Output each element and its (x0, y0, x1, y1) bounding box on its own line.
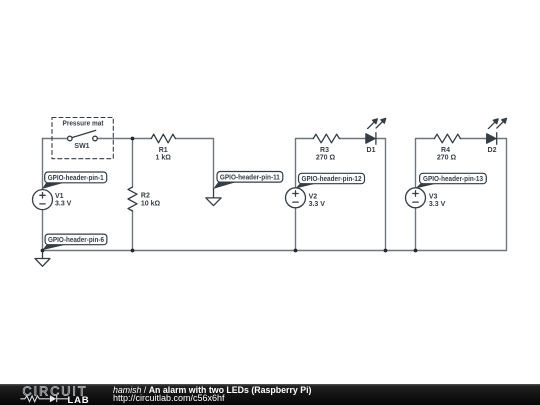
junction dots (41, 137, 418, 253)
LED D2 (487, 118, 507, 144)
wire left rail top (43, 138, 67, 140)
svg-text:R2: R2 (141, 193, 150, 200)
node GPIO-header-pin-11 (213, 172, 282, 189)
wire R2 bottom (132, 211, 134, 251)
wire V2 bottom (295, 208, 297, 251)
footer title (113, 385, 311, 395)
SW1 enclosure box (Pressure mat) (52, 118, 113, 159)
wire D1 to corner down (376, 139, 385, 251)
junction V2 bottom (294, 249, 298, 253)
svg-text:GPIO-header-pin-6: GPIO-header-pin-6 (48, 237, 104, 244)
resistor R2 (128, 187, 137, 211)
junction V3 bottom (414, 249, 418, 253)
junction D1 bottom (384, 249, 388, 253)
wire V2 top branch (296, 139, 314, 188)
svg-text:LAB: LAB (68, 395, 90, 405)
junction R1/R2 top (131, 137, 135, 141)
resistor R1 (151, 134, 175, 143)
CircuitLab logo (0, 384, 110, 405)
switch SW1 (68, 130, 98, 140)
junction R2 bottom (131, 249, 135, 253)
resistor R4 (434, 134, 460, 143)
svg-text:3.3 V: 3.3 V (55, 201, 72, 208)
node GPIO-header-pin-12 (295, 173, 364, 188)
wire R3 to D1 (339, 138, 366, 140)
voltage source V2 (286, 188, 306, 208)
wire D2 to corner down (497, 139, 506, 251)
voltage source V3 (406, 188, 426, 208)
svg-text:R1: R1 (159, 147, 168, 154)
footer bar (0, 384, 540, 405)
svg-text:GPIO-header-pin-11: GPIO-header-pin-11 (220, 175, 280, 182)
ground (bottom left) (35, 251, 50, 267)
junction ground left (41, 249, 45, 253)
svg-text:270 Ω: 270 Ω (316, 155, 336, 162)
svg-text:D1: D1 (367, 147, 376, 154)
resistor R3 (313, 134, 339, 143)
wire V3 bottom (415, 208, 417, 251)
svg-text:GPIO-header-pin-1: GPIO-header-pin-1 (48, 175, 104, 182)
node GPIO-header-pin-1 (42, 172, 107, 189)
svg-text:V3: V3 (429, 193, 438, 200)
footer url (113, 393, 225, 403)
svg-text:270 Ω: 270 Ω (437, 155, 457, 162)
wire R2 top (132, 139, 134, 188)
wire (43, 139, 507, 251)
svg-text:GPIO-header-pin-13: GPIO-header-pin-13 (423, 176, 483, 183)
svg-text:R3: R3 (320, 147, 329, 154)
wire R1 right to corner down (175, 139, 213, 189)
svg-text:SW1: SW1 (74, 143, 89, 150)
svg-text:10 kΩ: 10 kΩ (141, 200, 161, 207)
svg-text:3.3 V: 3.3 V (429, 201, 446, 208)
svg-text:V1: V1 (55, 193, 64, 200)
voltage source V1 (33, 190, 53, 210)
svg-text:V2: V2 (309, 193, 318, 200)
wire bottom rail (43, 250, 507, 252)
wire left rail V1 lower (42, 210, 44, 251)
node GPIO-header-pin-13 (415, 173, 486, 188)
node GPIO-header-pin-6 (42, 234, 107, 250)
wire V3 top branch (416, 139, 435, 188)
svg-text:3.3 V: 3.3 V (309, 201, 326, 208)
svg-text:Pressure mat: Pressure mat (63, 120, 105, 127)
svg-text:GPIO-header-pin-12: GPIO-header-pin-12 (302, 176, 362, 183)
svg-text:R4: R4 (441, 147, 450, 154)
wire switch to R1 junction (98, 138, 151, 140)
wire left rail V1 upper (42, 139, 44, 190)
svg-text:D2: D2 (488, 147, 497, 154)
wire R4 to D2 (460, 138, 486, 140)
LED D1 (366, 118, 386, 144)
svg-text:1 kΩ: 1 kΩ (156, 155, 172, 162)
ground (GPIO-11) (206, 189, 221, 206)
